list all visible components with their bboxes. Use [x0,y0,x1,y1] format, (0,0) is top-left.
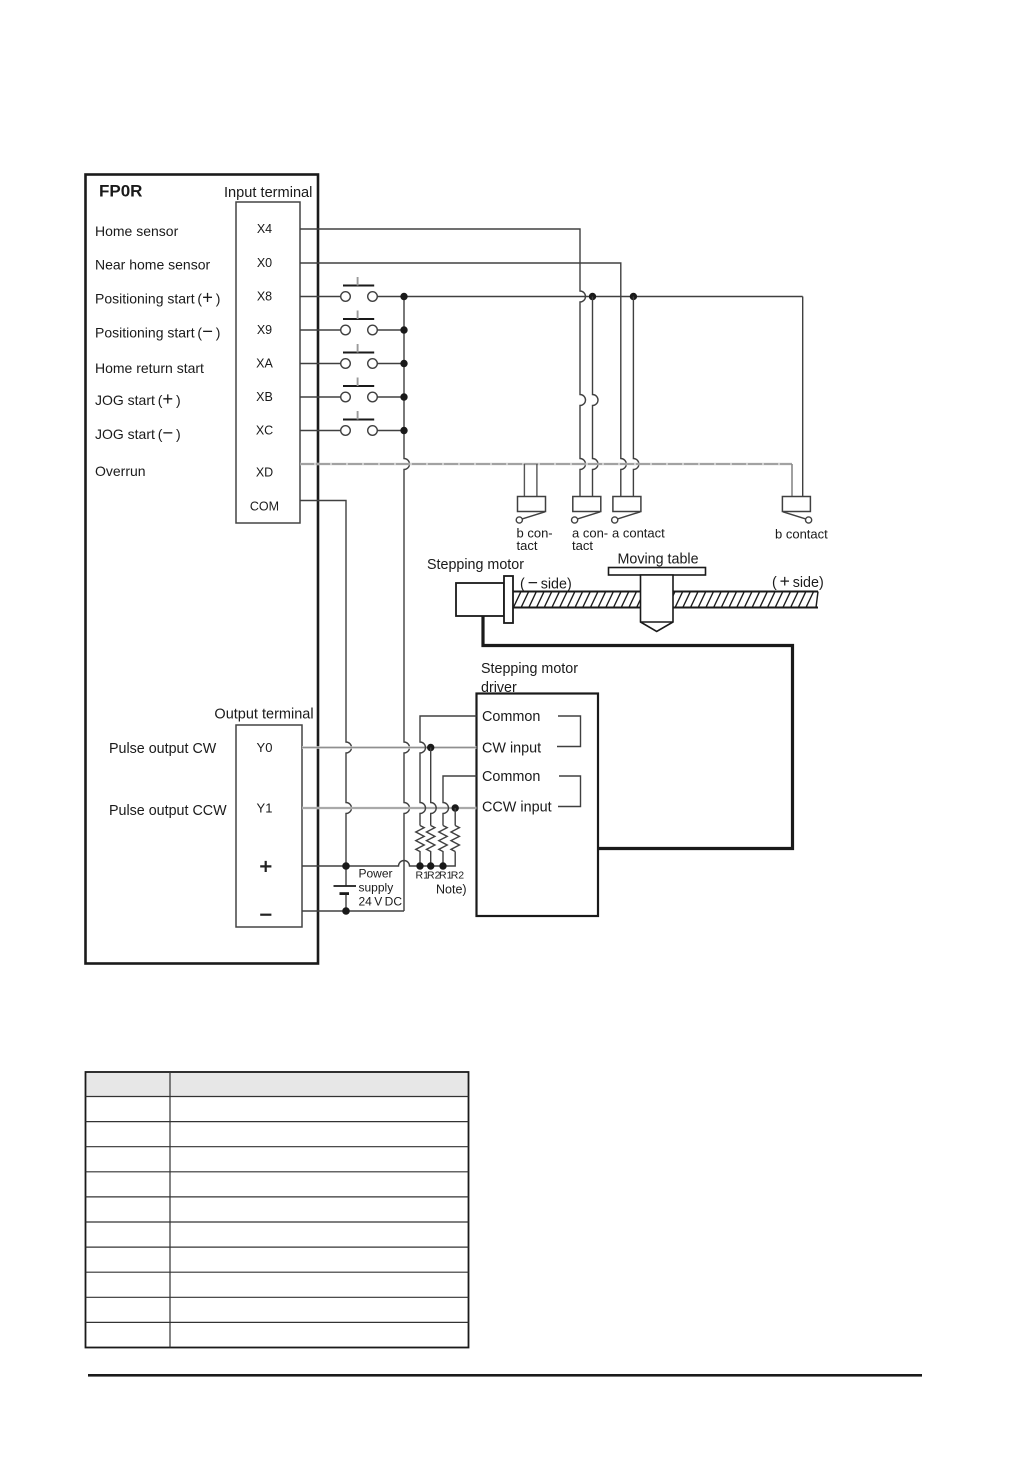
svg-text:R2: R2 [451,869,465,881]
resistor R2 (3) [451,826,459,852]
input terminal block [236,202,300,523]
wire - row [302,910,404,912]
svg-text:Output terminal: Output terminal [214,707,313,723]
svg-text:Y1: Y1 [257,800,273,815]
pushbutton switch on XA [300,344,404,368]
svg-text:Common: Common [482,769,540,785]
svg-text:Positioning start (+ ): Positioning start (+ ) [95,287,220,308]
wire Y0 to CW input (gray) [302,746,477,749]
junction dot COM/+ [342,862,350,870]
resistor R1 (2) [439,826,447,867]
svg-text:Stepping motor: Stepping motor [427,557,524,573]
svg-text:JOG start (− ): JOG start (− ) [95,422,181,443]
svg-text:XD: XD [256,466,273,480]
svg-text:Home return start: Home return start [95,360,204,376]
svg-text:b contact: b contact [775,527,828,542]
svg-text:Pulse output CCW: Pulse output CCW [109,803,227,819]
wire Common CCW to resistor R1(2nd) [443,776,477,826]
junction dot X8 row / a-contact 2 [630,293,637,300]
svg-text:XC: XC [256,424,273,438]
junction dot bus y=363.5 [400,360,407,367]
internal bracket CW [557,716,581,747]
wire XD drop to b-contact 1 left [523,464,525,497]
resistor R1 (0) [416,826,424,867]
wire X8 row corner down to right b-contact [802,297,804,497]
pushbutton switch on X9 [300,311,404,335]
lead screw [513,592,818,608]
footer rule [88,1374,922,1377]
limit switch b-contact 2 (overrun CCW) [782,497,811,524]
resistor R2 (1) [427,826,435,867]
pushbutton switch on X8 [300,277,803,301]
limit switch b-contact 1 (overrun CW) [516,497,545,524]
svg-text:Near home sensor: Near home sensor [95,257,211,273]
svg-text:X9: X9 [257,323,272,337]
wire + row to resistor bottoms [302,852,455,867]
svg-text:tact: tact [517,538,538,553]
wire from X8 row down to a-contact 2 [633,297,639,497]
wire XD line corner down to b-contact 4 left [791,464,793,497]
svg-text:JOG start (+ ): JOG start (+ ) [95,388,181,409]
junction dot X8 row / a-contact 1 [589,293,596,300]
svg-text:Positioning start (− ): Positioning start (− ) [95,321,220,342]
bottom data table [86,1072,469,1348]
wire Common CW to resistor R1 [420,716,477,826]
svg-text:Pulse output CW: Pulse output CW [109,741,217,757]
wire COM down to power supply + [300,501,352,867]
stepping motor driver box [477,694,599,917]
svg-text:Moving table: Moving table [618,552,699,568]
pushbutton switch on XC [300,411,404,435]
svg-text:24 V DC: 24 V DC [359,895,403,909]
internal bracket CCW [558,776,581,807]
wire X4 (home sensor) to a-contact [300,229,586,497]
svg-text:XB: XB [256,390,273,404]
svg-text:CCW input: CCW input [482,799,552,815]
svg-text:COM: COM [250,500,279,514]
svg-text:Input terminal: Input terminal [224,185,312,201]
svg-text:a contact: a contact [612,526,665,541]
junction dot bus y=330 [400,326,407,333]
wire R2(2nd) to CCW line [454,808,456,826]
svg-text:Common: Common [482,709,540,725]
moving table slider block [641,575,674,632]
svg-text:tact: tact [572,538,593,553]
junction dot bus y=397 [400,393,407,400]
svg-text:Note): Note) [436,883,467,897]
motor flange [504,576,513,623]
svg-text:Home sensor: Home sensor [95,223,179,239]
svg-text:FP0R: FP0R [99,182,142,201]
wire b-contact 1 right to XD line [536,464,538,497]
wire from X8 row down to a-contact 1 [593,297,599,497]
pin label - [260,914,271,916]
svg-text:Overrun: Overrun [95,463,146,479]
svg-text:X4: X4 [257,222,272,236]
thick motor cable to driver [483,616,793,849]
moving table top plate [609,568,706,576]
junction dot bus y=296.5 [400,293,407,300]
output terminal block [236,725,302,927]
sensor a-contact 2 (near home) [612,497,641,524]
pushbutton switch on XB [300,378,404,402]
common bus vertical (switches to -24V) [404,297,410,912]
stepping motor body [456,583,504,616]
svg-text:Stepping motor: Stepping motor [481,661,578,677]
junction dot battery/- [342,907,350,915]
svg-text:CW input: CW input [482,740,541,756]
svg-text:supply: supply [359,881,394,895]
FP0R PLC enclosure box [86,175,319,964]
wire XD (overrun, gray dashed) [300,463,792,466]
pin label + [260,861,271,872]
junction dot CCW/R2(2nd) [452,804,459,811]
battery 24VDC [334,866,357,911]
svg-text:X0: X0 [257,256,272,270]
sensor a-contact 1 (home sensor) [572,497,601,524]
svg-text:X8: X8 [257,290,272,304]
junction dot CW/R2 [427,744,434,751]
junction dot bus y=430.5 [400,427,407,434]
svg-text:Power: Power [359,867,393,881]
junction dots resistor bottoms [416,862,423,869]
svg-text:Y0: Y0 [257,740,273,755]
wire Y1 to CCW input (gray) [302,807,477,810]
wire R2 to CW line [431,748,437,826]
wire X0 (near home sensor) to a-contact [300,263,626,497]
svg-text:XA: XA [256,357,273,371]
